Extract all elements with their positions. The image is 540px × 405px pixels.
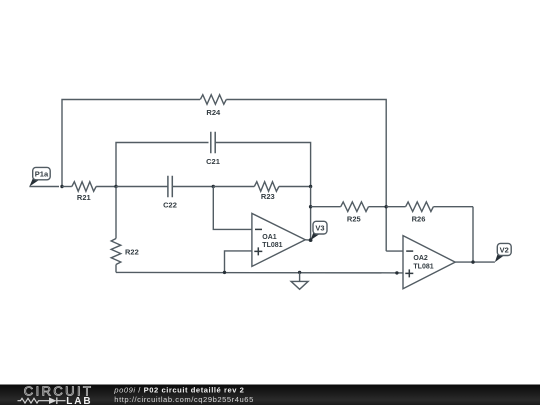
node E junction dot (R25 branch) bbox=[309, 205, 312, 208]
wire: node A up and across R24 row (left half) bbox=[62, 100, 200, 187]
footer title line bbox=[113, 385, 244, 394]
wire: bottom rail bbox=[116, 271, 403, 274]
CircuitLab logo: LAB text bbox=[66, 396, 92, 405]
svg-text:V2: V2 bbox=[500, 245, 509, 254]
svg-text:R25: R25 bbox=[347, 214, 361, 223]
capacitor C22 bbox=[116, 176, 213, 210]
svg-text:R26: R26 bbox=[412, 214, 426, 223]
wire: OA2 output to V2 bbox=[455, 261, 495, 263]
node F junction dot bbox=[385, 205, 388, 208]
CircuitLab logo: diode symbol bbox=[42, 397, 66, 404]
node A junction dot bbox=[60, 185, 63, 188]
footer bar background bbox=[0, 385, 540, 405]
svg-text:TL081: TL081 bbox=[413, 264, 433, 271]
svg-text:LAB: LAB bbox=[66, 396, 92, 405]
svg-text:R24: R24 bbox=[206, 108, 221, 117]
svg-text:V3: V3 bbox=[315, 223, 324, 232]
node H junction dot (ground tap) bbox=[298, 271, 301, 274]
node G junction dot (OA1 + to rail) bbox=[223, 271, 226, 274]
resistor R26 bbox=[386, 202, 473, 223]
wire: P1a stub to node A bbox=[29, 186, 59, 188]
port V3 bbox=[311, 221, 327, 240]
node C junction dot bbox=[309, 185, 312, 188]
node D junction dot (to OA1 inverting input) bbox=[212, 185, 215, 188]
svg-text:C21: C21 bbox=[206, 157, 220, 166]
svg-text:P1a: P1a bbox=[35, 169, 49, 178]
svg-text:R21: R21 bbox=[77, 193, 91, 202]
port V2 bbox=[495, 243, 511, 262]
svg-text:R23: R23 bbox=[261, 192, 275, 201]
svg-text:po09i / P02 circuit detaillé r: po09i / P02 circuit detaillé rev 2 bbox=[113, 385, 244, 394]
wire: node C down to OA1 output bbox=[310, 187, 312, 241]
ground bbox=[291, 272, 308, 289]
CircuitLab logo: resistor zigzag bbox=[18, 398, 42, 403]
wire: OA2 inverting input stub bbox=[386, 250, 403, 252]
wire: node B to C21 row (left riser) bbox=[116, 143, 209, 187]
svg-text:C22: C22 bbox=[163, 200, 177, 209]
svg-text:TL081: TL081 bbox=[262, 242, 282, 249]
port P1a bbox=[29, 167, 50, 186]
node V3 junction dot bbox=[309, 238, 313, 242]
op-amp OA1 TL081 bbox=[252, 213, 305, 266]
CircuitLab logo: CIRCUIT wordmark bbox=[24, 384, 94, 399]
resistor R25 bbox=[311, 202, 387, 223]
svg-text:R22: R22 bbox=[125, 247, 139, 256]
wire: OA1 output lead bbox=[305, 239, 310, 241]
resistor R23 bbox=[213, 182, 310, 202]
capacitor C21 bbox=[206, 132, 220, 166]
wire: OA1 inverting input branch bbox=[213, 187, 252, 230]
svg-text:OA1: OA1 bbox=[262, 234, 277, 241]
footer url line bbox=[114, 395, 254, 404]
svg-text:http://circuitlab.com/cq29b255: http://circuitlab.com/cq29b255r4u65 bbox=[114, 395, 254, 404]
node J junction dot (feedback tap) bbox=[471, 260, 474, 263]
op-amp OA2 TL081 bbox=[403, 236, 455, 289]
wire: C21 right side over to node C riser bbox=[215, 143, 310, 187]
wire: R24 right to vertical x=386 down to OA2 inverting input bbox=[226, 100, 386, 252]
node I junction dot (OA2 + input) bbox=[395, 271, 398, 274]
resistor R22 (vertical) bbox=[111, 187, 139, 273]
resistor R24 bbox=[200, 95, 226, 117]
resistor R21 bbox=[62, 182, 116, 203]
wire: R26 right down to OA2 output bbox=[472, 207, 474, 262]
node B junction dot bbox=[114, 185, 117, 188]
svg-text:OA2: OA2 bbox=[413, 255, 428, 262]
wire: OA1 non-inverting input branch bbox=[225, 251, 253, 273]
